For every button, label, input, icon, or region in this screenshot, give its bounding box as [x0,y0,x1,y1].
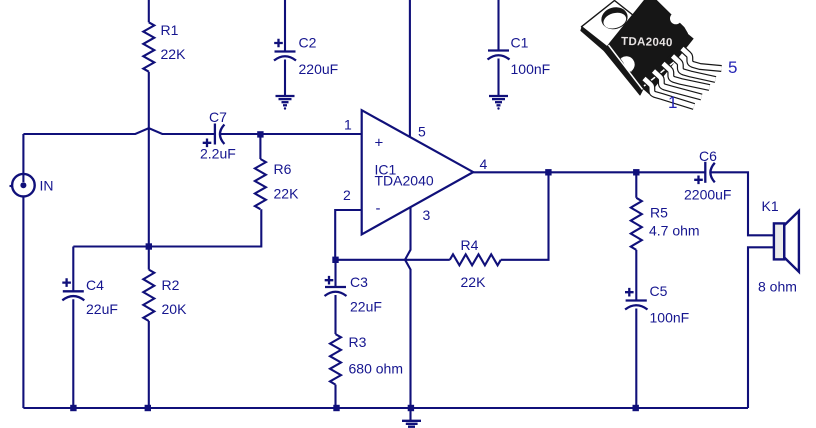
svg-text:C5: C5 [650,283,668,299]
svg-text:TDA2040: TDA2040 [621,36,673,49]
wire: C5 to ground rail [635,309,637,409]
wire: pin 2 stub down to feedback node [335,210,362,260]
capacitor C7 [214,124,216,145]
wire: C1 to ground [497,59,499,96]
resistor R1 [143,22,154,71]
wire: C6 to speaker [711,172,774,235]
svg-text:220uF: 220uF [299,61,339,77]
node: C4 / ground rail [70,405,76,411]
svg-text:680 ohm: 680 ohm [349,361,403,377]
svg-text:+: + [375,135,384,152]
wire: top feed to R1 [148,0,150,22]
wire: C4 to ground rail [72,299,74,408]
svg-text:5: 5 [418,124,426,140]
wire: output pin 4 line [473,171,704,173]
node: R1/R2 on bias line [146,243,152,249]
node: output/feedback [545,169,551,175]
capacitor C2 [275,50,296,52]
svg-text:C4: C4 [86,277,104,293]
wire: feedback line to R4 [336,259,450,261]
svg-text:C6: C6 [699,148,717,164]
wire: jack to ground rail [22,197,24,408]
resistor R2 [143,270,154,321]
wire: pin 5 supply line [409,0,411,137]
svg-text:R6: R6 [274,161,292,177]
node: C7/R6/pin1 junction [257,131,263,137]
svg-text:2.2uF: 2.2uF [200,146,236,162]
capacitor C6 [704,162,706,183]
svg-text:3: 3 [423,207,431,223]
svg-text:R5: R5 [650,205,668,221]
svg-text:R3: R3 [349,334,367,350]
svg-text:22K: 22K [461,274,487,290]
capacitor C1 [488,49,509,51]
svg-text:22uF: 22uF [350,299,382,315]
svg-text:R4: R4 [461,237,479,253]
svg-text:R1: R1 [161,22,179,38]
svg-text:C2: C2 [299,35,317,51]
svg-text:8 ohm: 8 ohm [758,279,797,295]
svg-text:-: - [376,200,381,217]
svg-text:C1: C1 [511,35,529,51]
svg-text:2: 2 [343,187,351,203]
svg-text:4: 4 [480,156,488,172]
node: C5 / ground rail [633,405,639,411]
svg-text:1: 1 [344,117,352,133]
ground (C2) [276,95,295,97]
wire: C2 to ground [284,60,286,96]
node: pin2/C3/R4 junction [332,257,338,263]
svg-text:4.7 ohm: 4.7 ohm [649,223,700,239]
resistor R6 [259,134,261,159]
wire: top feed to C2 [284,0,286,52]
wire: R1 bottom down to bias node and R2 [148,72,150,270]
ground rail (bottom) [23,407,748,409]
wire: pin 3 down with hop, to ground rail [405,207,411,408]
svg-text:1: 1 [668,93,677,112]
capacitor C4 [72,247,74,292]
input jack IN [22,134,24,174]
resistor R3 [334,295,336,334]
svg-text:100nF: 100nF [650,310,690,326]
svg-text:100nF: 100nF [511,61,551,77]
wire: speaker return to ground rail [748,247,774,408]
wire: R3 to ground rail [334,385,336,408]
svg-text:22uF: 22uF [86,301,118,317]
TDA2040 package illustration [580,0,737,112]
svg-text:C3: C3 [350,274,368,290]
wire: input line with hop over R1 line, to C7 [23,128,214,134]
op-amp IC1 triangle [362,110,474,234]
node: R3 / ground rail [333,405,339,411]
svg-text:2200uF: 2200uF [684,187,731,203]
node: pin 3 / ground rail [408,405,414,411]
ground (pin 3) [409,408,411,420]
svg-text:20K: 20K [162,301,188,317]
svg-text:IN: IN [40,178,54,194]
svg-text:22K: 22K [161,46,187,62]
svg-text:22K: 22K [274,186,300,202]
speaker K1 [784,211,799,272]
svg-text:C7: C7 [209,109,227,125]
resistor R5 [635,172,637,198]
svg-text:R2: R2 [162,277,180,293]
capacitor C5 [635,250,637,300]
ground (C1) [489,95,508,97]
resistor R4 [450,254,501,265]
capacitor C3 [334,260,336,287]
svg-text:TDA2040: TDA2040 [375,173,434,189]
wire: C7 to op-amp pin 1 [221,133,362,135]
wire: R2 bottom to ground rail [148,321,150,408]
wire: bias line C4 to R6 bottom [73,209,261,246]
svg-text:5: 5 [728,58,737,77]
svg-text:K1: K1 [762,198,779,214]
wire: top feed to C1 [497,0,499,51]
wire: R4 right up to output [501,172,549,259]
node: output/R5 [633,169,639,175]
node: R2 / ground rail [145,405,151,411]
